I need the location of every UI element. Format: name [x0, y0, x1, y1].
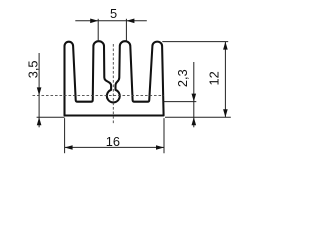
svg-text:3,5: 3,5: [25, 61, 40, 79]
dim 2,3 arrow up-pointing: [192, 117, 197, 125]
dim 2,3 line: [193, 62, 195, 127]
dim 2,3 top extension line: [164, 101, 197, 103]
heatsink profile outline with keyhole screw channel: [65, 41, 164, 115]
svg-text:16: 16: [106, 134, 120, 149]
bottom extension line shared by 12 and 2,3: [165, 116, 231, 118]
dim 16 line: [65, 146, 164, 148]
dim 3,5 arrow down-pointing: [37, 87, 42, 95]
dim 12 arrow up-pointing: [223, 42, 228, 50]
dim 3,5 arrow up-pointing: [37, 117, 42, 125]
dim 5 line: [75, 20, 147, 22]
dim 12 top extension line: [162, 41, 228, 43]
dim 16 arrow left-pointing: [65, 145, 73, 150]
dim 16 left extension line: [64, 118, 66, 153]
dim 3,5 line: [38, 53, 40, 127]
dim 12 line: [224, 42, 226, 118]
svg-text:2,3: 2,3: [175, 69, 190, 87]
dim 5 extension line left: [97, 19, 99, 42]
dim 5 extension line right: [125, 19, 127, 42]
svg-text:5: 5: [110, 6, 117, 21]
dim 16 arrow right-pointing: [156, 145, 164, 150]
dim 16 right extension line: [163, 118, 165, 153]
dim 5 arrow right-pointing: [90, 19, 98, 24]
svg-text:12: 12: [207, 71, 222, 85]
dim 3,5 bottom extension line: [37, 116, 65, 118]
dim 5 arrow left-pointing: [126, 19, 134, 24]
dim 2,3 arrow down-pointing: [192, 94, 197, 102]
horizontal centerline: [33, 94, 164, 96]
dim 12 arrow down-pointing: [223, 109, 228, 117]
vertical centerline: [112, 44, 114, 124]
